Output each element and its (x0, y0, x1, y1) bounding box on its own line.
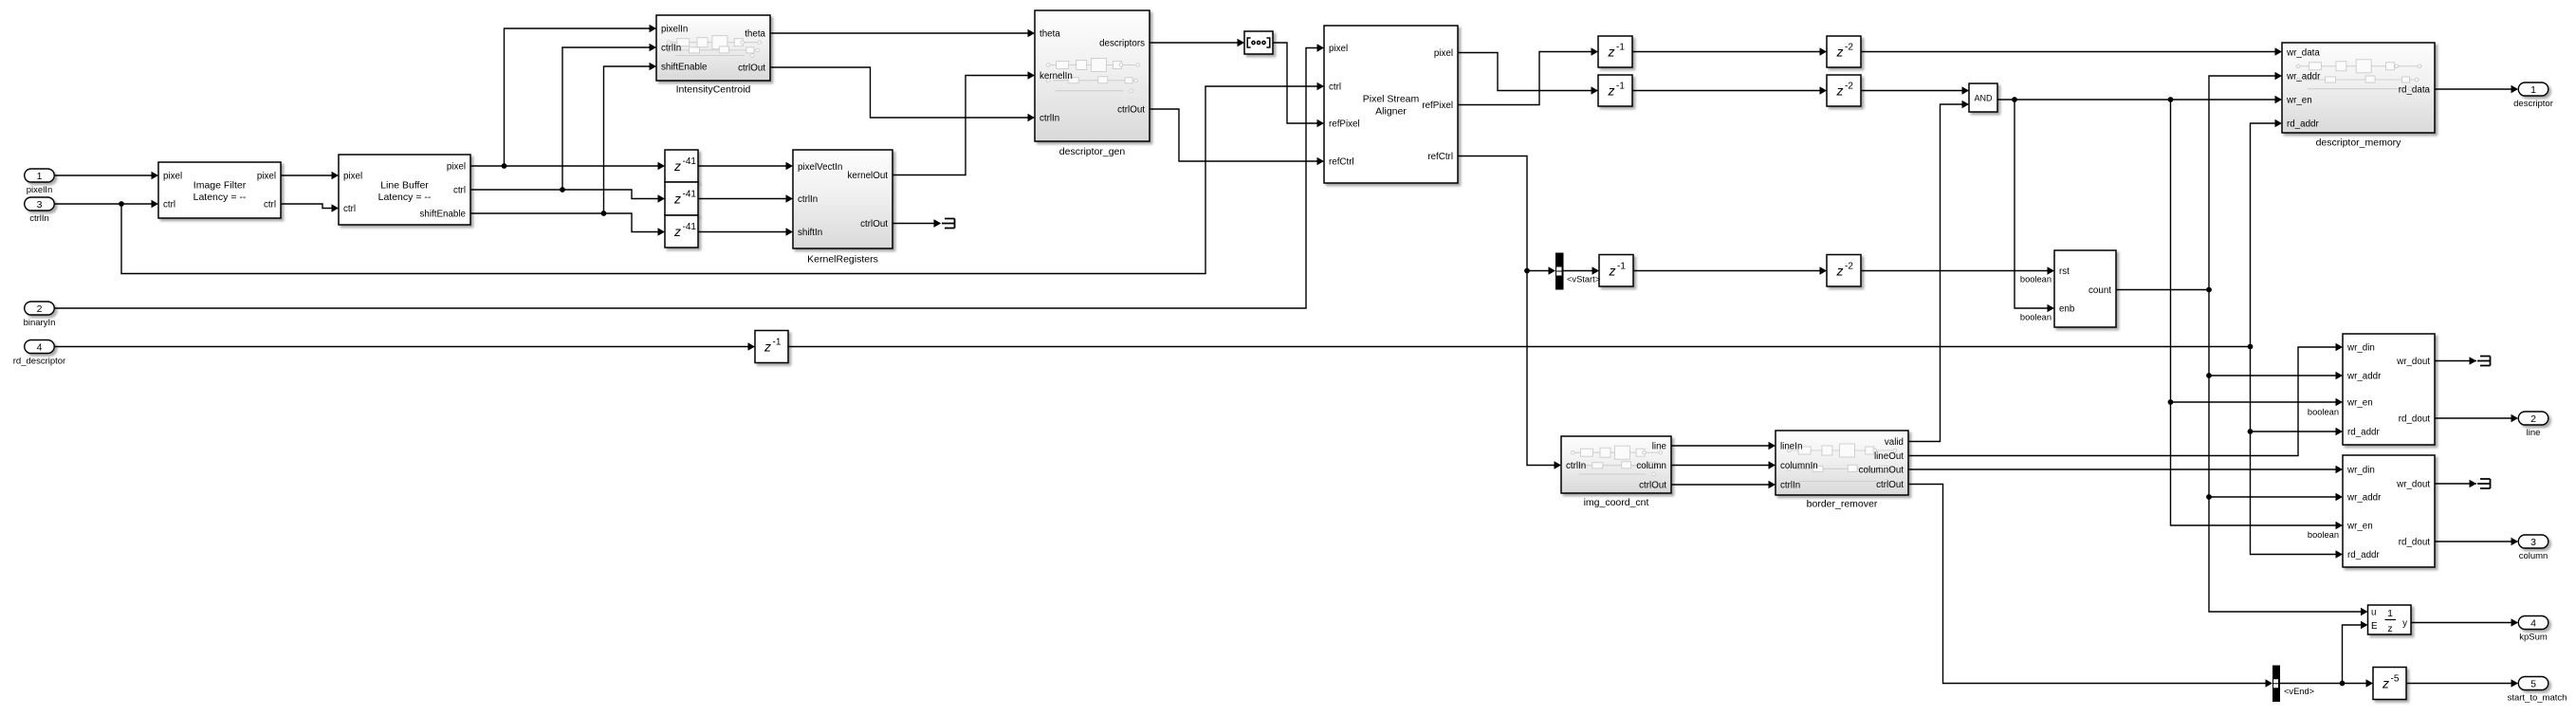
svg-text:line: line (2527, 428, 2541, 438)
svg-text:Image Filter: Image Filter (193, 180, 247, 192)
svg-text:valid: valid (1885, 437, 1904, 448)
svg-text:columnOut: columnOut (1859, 466, 1904, 476)
svg-text:4: 4 (2530, 617, 2536, 629)
svg-text:rd_data: rd_data (2399, 85, 2431, 96)
svg-text:descriptor: descriptor (2513, 99, 2553, 109)
svg-text:binaryIn: binaryIn (24, 318, 56, 328)
svg-text:ctrlIn: ctrlIn (661, 44, 681, 54)
svg-text:rd_addr: rd_addr (2347, 550, 2381, 560)
svg-text:z: z (764, 340, 771, 355)
svg-text:3: 3 (37, 199, 43, 211)
svg-text:wr_addr: wr_addr (2286, 72, 2321, 83)
svg-text:pixel: pixel (1434, 48, 1453, 59)
svg-text:ctrlOut: ctrlOut (860, 219, 888, 229)
svg-text:1: 1 (2387, 608, 2393, 619)
svg-text:boolean: boolean (2020, 313, 2052, 322)
svg-text:rd_addr: rd_addr (2347, 428, 2381, 438)
svg-text:z: z (1836, 83, 1844, 99)
svg-text:pixel: pixel (447, 162, 466, 173)
svg-text:ctrlOut: ctrlOut (738, 64, 765, 74)
svg-text:descriptors: descriptors (1099, 39, 1145, 49)
svg-text:wr_din: wr_din (2346, 343, 2375, 354)
svg-text:boolean: boolean (2020, 275, 2052, 285)
svg-text:pixel: pixel (257, 172, 276, 182)
svg-text:-1: -1 (1616, 43, 1625, 53)
svg-text:-2: -2 (1845, 43, 1853, 53)
svg-text:refPixel: refPixel (1422, 101, 1453, 111)
svg-text:ctrl: ctrl (264, 200, 276, 211)
svg-text:wr_en: wr_en (2286, 96, 2312, 106)
svg-text:z: z (2387, 623, 2392, 634)
svg-text:ctrl: ctrl (343, 204, 356, 214)
svg-text:-5: -5 (2391, 674, 2400, 685)
svg-text:z: z (1836, 263, 1844, 278)
svg-text:shiftEnable: shiftEnable (661, 63, 708, 73)
svg-text:rd_dout: rd_dout (2399, 538, 2431, 548)
svg-text:1: 1 (2530, 84, 2536, 96)
svg-text:ctrlIn: ctrlIn (29, 213, 49, 224)
svg-text:z: z (673, 224, 681, 239)
svg-text:pixelVectIn: pixelVectIn (798, 162, 842, 173)
svg-text:-2: -2 (1845, 261, 1853, 271)
svg-text:line: line (1652, 442, 1667, 452)
svg-text:2: 2 (2530, 413, 2536, 425)
svg-text:z: z (1836, 45, 1844, 60)
svg-text:rd_descriptor: rd_descriptor (13, 357, 65, 367)
svg-text:ctrl: ctrl (453, 186, 466, 196)
svg-text:refCtrl: refCtrl (1427, 152, 1453, 162)
svg-text:column: column (1636, 461, 1666, 471)
svg-text:start_to_match: start_to_match (2508, 693, 2567, 704)
svg-text:wr_en: wr_en (2346, 522, 2373, 532)
svg-text:ctrlIn: ctrlIn (1566, 461, 1586, 471)
svg-text:border_remover: border_remover (1807, 499, 1878, 510)
svg-text:wr_addr: wr_addr (2346, 372, 2382, 382)
svg-text:boolean: boolean (2308, 530, 2339, 540)
svg-text:columnIn: columnIn (1780, 461, 1818, 471)
svg-text:enb: enb (2059, 304, 2075, 315)
svg-text:wr_en: wr_en (2346, 398, 2373, 409)
svg-text:2: 2 (37, 303, 43, 315)
svg-text:Line Buffer: Line Buffer (380, 180, 429, 192)
svg-text:ctrlIn: ctrlIn (798, 194, 818, 205)
svg-text:1: 1 (37, 171, 43, 182)
svg-text:wr_dout: wr_dout (2396, 357, 2430, 367)
svg-text:E: E (2371, 621, 2378, 632)
svg-text:-1: -1 (1616, 82, 1625, 92)
svg-text:img_coord_cnt: img_coord_cnt (1584, 497, 1649, 508)
svg-text:kernelOut: kernelOut (848, 171, 889, 181)
svg-text:rst: rst (2059, 266, 2070, 277)
svg-text:theta: theta (745, 29, 765, 40)
svg-text:ctrlIn: ctrlIn (1040, 114, 1059, 124)
svg-text:Latency = --: Latency = -- (378, 192, 432, 203)
svg-text:z: z (1608, 83, 1615, 99)
svg-text:y: y (2402, 618, 2407, 629)
svg-text:ctrlOut: ctrlOut (1117, 105, 1145, 116)
svg-text:KernelRegisters: KernelRegisters (807, 254, 878, 266)
svg-text:<vStart>: <vStart> (1567, 275, 1600, 285)
svg-text:z: z (673, 158, 681, 174)
svg-text:lineIn: lineIn (1780, 442, 1802, 452)
svg-text:ctrlOut: ctrlOut (1639, 481, 1666, 491)
svg-text:pixelIn: pixelIn (661, 25, 688, 35)
svg-text:z: z (1609, 263, 1616, 278)
svg-text:wr_data: wr_data (2286, 48, 2320, 59)
svg-text:count: count (2088, 285, 2111, 296)
svg-text:AND: AND (1974, 94, 1993, 103)
svg-text:IntensityCentroid: IntensityCentroid (676, 84, 751, 96)
svg-text:z: z (673, 192, 681, 207)
svg-text:-2: -2 (1845, 82, 1853, 92)
svg-text:Aligner: Aligner (1375, 106, 1407, 118)
svg-text:-41: -41 (683, 190, 697, 200)
svg-text:z: z (2382, 676, 2389, 691)
svg-text:-1: -1 (1617, 261, 1626, 271)
svg-text:u: u (2371, 608, 2376, 618)
svg-text:shiftEnable: shiftEnable (420, 210, 467, 220)
svg-text:kpSum: kpSum (2519, 633, 2548, 643)
svg-text:4: 4 (37, 341, 43, 353)
svg-text:kernelIn: kernelIn (1040, 71, 1073, 82)
svg-text:pixelIn: pixelIn (27, 185, 52, 195)
svg-text:Latency = --: Latency = -- (193, 192, 247, 203)
svg-text:rd_addr: rd_addr (2287, 119, 2320, 130)
svg-text:Pixel Stream: Pixel Stream (1363, 94, 1420, 105)
svg-text:-41: -41 (683, 222, 697, 232)
svg-text:shiftIn: shiftIn (798, 228, 822, 238)
svg-text:refCtrl: refCtrl (1329, 157, 1354, 168)
svg-text:wr_dout: wr_dout (2396, 480, 2430, 490)
svg-text:ctrl: ctrl (1329, 83, 1341, 93)
svg-text:descriptor_gen: descriptor_gen (1059, 146, 1126, 157)
svg-text:-1: -1 (773, 338, 782, 348)
svg-text:5: 5 (2530, 678, 2536, 689)
svg-text:pixel: pixel (163, 172, 182, 182)
svg-text:wr_din: wr_din (2346, 466, 2375, 476)
svg-text:theta: theta (1040, 29, 1060, 40)
svg-text:pixel: pixel (343, 172, 362, 182)
svg-text:boolean: boolean (2308, 408, 2339, 417)
svg-text:refPixel: refPixel (1329, 119, 1360, 130)
svg-text:rd_dout: rd_dout (2399, 414, 2431, 425)
svg-text:column: column (2519, 551, 2548, 561)
svg-text:3: 3 (2530, 537, 2536, 548)
svg-text:lineOut: lineOut (1874, 451, 1904, 462)
svg-text:ctrlIn: ctrlIn (1780, 481, 1800, 491)
svg-text:pixel: pixel (1329, 44, 1348, 54)
svg-text:z: z (1608, 45, 1615, 60)
svg-text:descriptor_memory: descriptor_memory (2316, 138, 2402, 149)
svg-text:ctrl: ctrl (163, 200, 175, 211)
svg-text:-41: -41 (683, 156, 697, 167)
svg-text:wr_addr: wr_addr (2346, 493, 2382, 504)
svg-text:<vEnd>: <vEnd> (2284, 687, 2314, 696)
svg-text:ctrlOut: ctrlOut (1876, 480, 1904, 490)
